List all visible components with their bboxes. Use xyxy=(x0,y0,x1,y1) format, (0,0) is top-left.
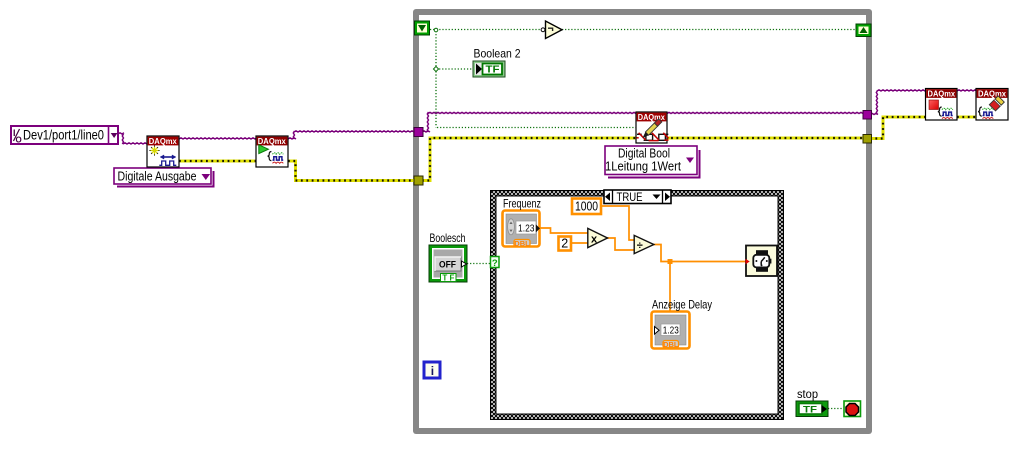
svg-text:Digital Bool: Digital Bool xyxy=(618,147,670,161)
svg-text:Boolean 2: Boolean 2 xyxy=(474,47,521,61)
svg-text:stop: stop xyxy=(797,387,818,401)
svg-text:Boolesch: Boolesch xyxy=(430,231,466,245)
svg-text:T F: T F xyxy=(442,274,454,283)
svg-text:÷: ÷ xyxy=(637,240,643,252)
svg-text:1000: 1000 xyxy=(575,199,598,213)
svg-text:DAQmx: DAQmx xyxy=(638,113,665,122)
svg-text:1Leitung 1Wert: 1Leitung 1Wert xyxy=(605,160,681,174)
svg-text:?: ? xyxy=(492,258,498,269)
svg-text:1.23: 1.23 xyxy=(663,324,679,336)
svg-text:DAQmx: DAQmx xyxy=(149,137,177,146)
svg-text:TF: TF xyxy=(486,65,500,76)
svg-text:Frequenz: Frequenz xyxy=(503,197,541,211)
svg-text:2: 2 xyxy=(561,236,568,250)
svg-text:O: O xyxy=(16,136,22,145)
svg-text:i: i xyxy=(431,364,434,378)
svg-text:x: x xyxy=(591,233,598,245)
svg-text:Dev1/port1/line0: Dev1/port1/line0 xyxy=(23,128,104,143)
svg-text:TF: TF xyxy=(803,404,817,415)
svg-text:DAQmx: DAQmx xyxy=(978,89,1006,98)
svg-text:Anzeige Delay: Anzeige Delay xyxy=(652,298,712,312)
svg-text:DAQmx: DAQmx xyxy=(928,89,956,98)
svg-text:OFF: OFF xyxy=(439,259,456,270)
svg-text:TRUE: TRUE xyxy=(617,190,643,204)
svg-text:Digitale Ausgabe: Digitale Ausgabe xyxy=(118,169,197,184)
svg-text:DAQmx: DAQmx xyxy=(258,137,286,146)
svg-text:1.23: 1.23 xyxy=(518,222,535,234)
svg-text:DBL: DBL xyxy=(663,340,679,349)
svg-text:DBL: DBL xyxy=(514,239,530,248)
